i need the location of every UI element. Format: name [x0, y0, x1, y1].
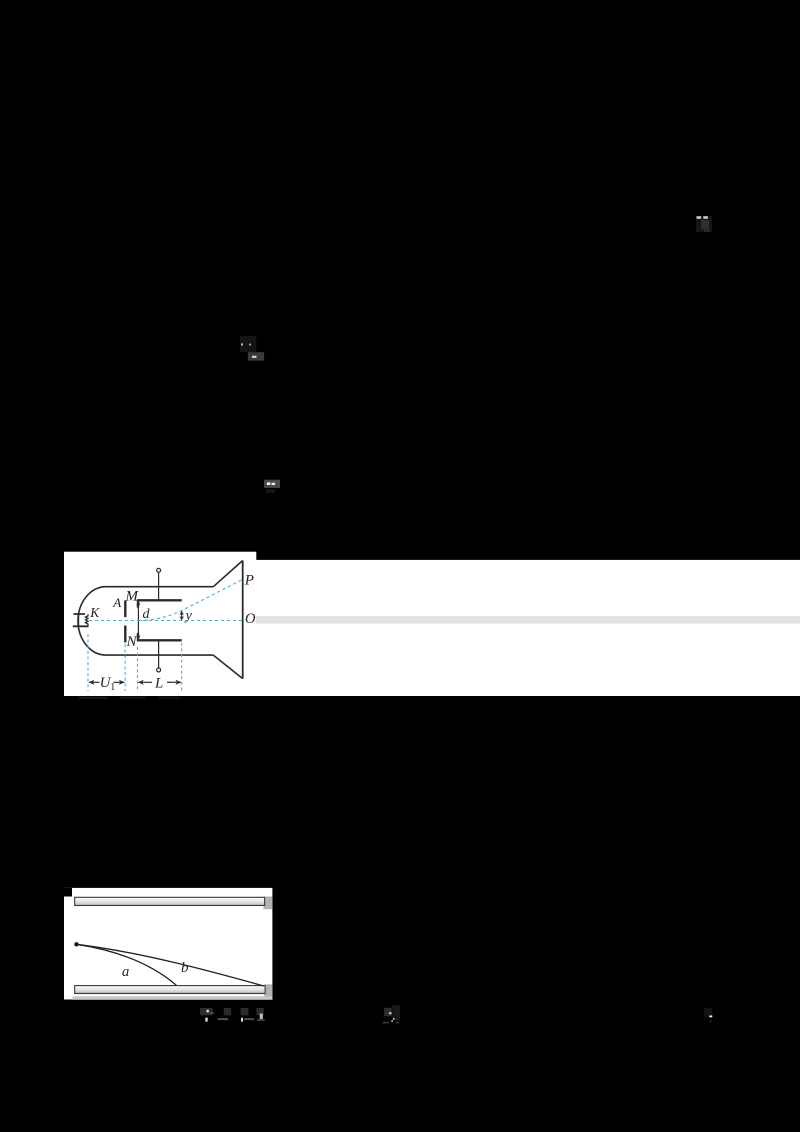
deflection plate M — [138, 600, 182, 607]
gap arrow d top head — [136, 601, 140, 606]
screen face — [242, 561, 244, 679]
anode A slit top — [124, 601, 126, 618]
top capacitor plate — [75, 897, 265, 905]
svg-text:A: A — [112, 595, 121, 610]
svg-text:K: K — [89, 605, 100, 620]
fragment c group — [704, 1008, 712, 1018]
bottom capacitor plate — [75, 986, 265, 994]
deflection y arrow — [181, 612, 183, 619]
top plate end block — [264, 897, 273, 910]
bottom plate end block — [264, 984, 272, 997]
faint residue dashes under band — [78, 697, 108, 700]
tube envelope rounded cap — [78, 587, 106, 655]
anode A slit bottom — [124, 626, 126, 643]
figure 1 white band right part — [255, 560, 800, 696]
svg-text:N: N — [126, 634, 138, 650]
svg-text:O: O — [245, 611, 256, 627]
flare bottom diagonal — [213, 655, 242, 679]
cathode K plate — [73, 613, 89, 627]
bottom lead wire — [158, 640, 160, 667]
figure 1 white band left part — [64, 552, 256, 696]
dashed extension line at plate left — [137, 647, 139, 691]
dimension U1 left segment — [89, 681, 99, 683]
bottom plate shadow — [73, 996, 273, 1000]
svg-text:b: b — [181, 960, 189, 976]
dashed trajectory parabola — [139, 579, 243, 620]
dashed extension line at K — [87, 634, 89, 691]
fragment T0 at top right — [696, 216, 712, 232]
top lead wire — [158, 573, 160, 601]
svg-text:y: y — [184, 609, 193, 624]
gap arrow d line — [137, 603, 139, 637]
svg-text:P: P — [244, 572, 254, 588]
cathode heater coil — [85, 614, 88, 626]
figure 2 corner notch — [64, 888, 72, 897]
bottom terminal — [157, 668, 161, 672]
tube top wall — [106, 586, 214, 588]
svg-text:1: 1 — [110, 682, 115, 693]
figure 2 white panel — [64, 888, 272, 1000]
svg-text:a: a — [122, 964, 129, 980]
trajectory b — [77, 944, 264, 986]
top terminal — [157, 568, 161, 572]
svg-text:M: M — [125, 589, 140, 605]
deflection plate N — [138, 633, 182, 640]
svg-text:L: L — [154, 675, 163, 691]
fragment equation chip 1 — [240, 336, 256, 352]
dashed beam axis — [89, 620, 243, 622]
gap arrow d bottom head — [136, 635, 140, 640]
dimension L right segment — [167, 681, 181, 683]
dashed extension line at A — [124, 644, 126, 691]
dashed extension line at plate right — [181, 643, 183, 691]
dimension U1 right segment — [114, 681, 125, 683]
gray highlight strip at O level — [256, 616, 800, 624]
trajectory a — [77, 944, 177, 985]
charge dot — [74, 942, 78, 946]
fragment equation chip 2 — [264, 480, 280, 488]
flare top diagonal — [213, 561, 242, 587]
dimension L left segment — [139, 681, 152, 683]
fragment row marks — [207, 1010, 209, 1013]
fragment row squares — [200, 1008, 212, 1015]
fragment t2 group — [384, 1008, 392, 1017]
tube bottom wall — [106, 654, 214, 656]
